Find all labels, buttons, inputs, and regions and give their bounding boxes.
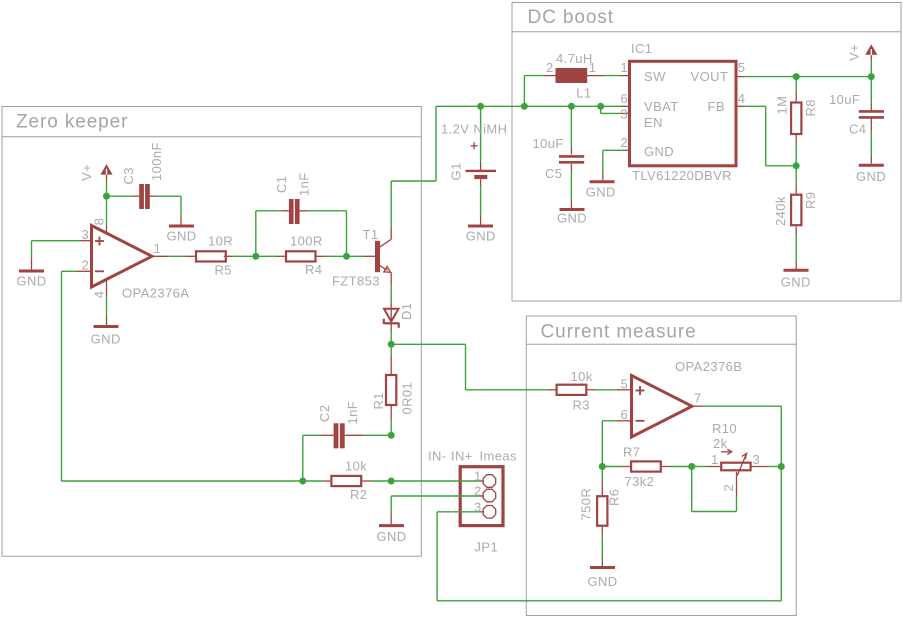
svg-text:5: 5 [738,60,746,75]
wire opamp pin2 feedback [62,271,303,481]
svg-text:R5: R5 [215,263,232,278]
svg-text:FZT853: FZT853 [332,274,380,289]
svg-text:750R: 750R [579,488,594,521]
diode D1 zener [384,303,415,331]
svg-text:2: 2 [546,60,554,75]
wire node to R7 [602,466,630,468]
wire to T1 base [347,255,376,257]
resistor R2 10k [331,459,367,503]
svg-text:6: 6 [621,407,629,422]
wire R10 pin3 to output net [752,466,782,468]
svg-text:GND: GND [91,332,121,347]
svg-text:1: 1 [474,468,482,483]
wire opamp pin1 output [152,255,195,257]
wire R2 to JP1 node [362,480,391,482]
svg-text:R4: R4 [305,262,322,277]
svg-text:L1: L1 [576,86,591,101]
svg-text:5: 5 [621,376,629,391]
connector JP1 pads [474,468,498,554]
frame Current measure [526,316,796,616]
wire VOUT net [736,76,871,78]
frame Zero keeper [2,107,421,557]
svg-text:R2: R2 [350,487,367,502]
junction R7/R10 node [688,463,695,470]
svg-text:GND: GND [16,274,46,289]
svg-text:2: 2 [474,483,482,498]
capacitor C3 [121,142,164,209]
svg-text:2: 2 [620,135,628,150]
capacitor C1 1nF [274,172,312,224]
svg-text:OPA2376A: OPA2376A [122,285,189,300]
wire R9 to GND [795,227,797,270]
op-amp U1B OPA2376B [621,359,743,437]
wire C3 to GND [150,196,181,224]
svg-text:7: 7 [694,391,702,406]
svg-text:Current measure: Current measure [541,322,697,343]
ground GND (JP1 pin2) [376,526,406,544]
wire R7 to pot node [662,466,692,468]
resistor R3 10k [547,369,593,413]
inductor L1 4.7uH [546,51,596,100]
svg-text:DC boost: DC boost [528,7,614,28]
wire R5 to node [224,255,256,257]
svg-text:1nF: 1nF [297,172,312,196]
resistor R1 0R01 [371,375,415,415]
svg-text:1.2V NiMH: 1.2V NiMH [441,122,507,137]
svg-text:2: 2 [721,484,736,492]
svg-text:GND: GND [466,229,496,244]
svg-text:FB: FB [708,99,725,114]
svg-text:V+: V+ [79,164,94,181]
junction VOUT/R8 [793,73,800,80]
wire R3 to opamp pin5 [588,389,632,391]
supply symbol V+ (DC boost) [846,44,877,77]
svg-text:R7: R7 [623,445,640,460]
wire opamp pin7 output [692,406,781,601]
junction node R4/T1 base [343,253,350,260]
svg-text:GND: GND [557,211,587,226]
wire JP1 pin3 Imeas [437,512,781,601]
svg-text:10uF: 10uF [533,136,564,151]
wire C1 branch right [300,211,347,256]
svg-text:4.7uH: 4.7uH [556,51,593,66]
junction VOUT/C4 [868,73,875,80]
svg-text:VOUT: VOUT [691,69,729,84]
wire JP1 pin2 to GND [391,496,484,524]
wire L1 to SW pin [587,75,629,77]
junction R8/R9/FB [793,162,800,169]
svg-text:1: 1 [620,60,628,75]
svg-text:73k2: 73k2 [625,474,655,489]
svg-text:1nF: 1nF [345,401,360,425]
transistor T1 FZT853 [332,227,391,289]
svg-text:2k: 2k [713,436,728,451]
svg-text:R6: R6 [607,489,622,506]
resistor R5 10R [196,234,233,278]
resistor R6 750R [579,488,622,526]
ground GND (R9) [781,270,811,289]
svg-text:GND: GND [644,144,674,159]
svg-text:GND: GND [856,169,886,184]
resistor R7 73k2 [623,445,661,489]
wire battery minus to GND [480,186,482,225]
svg-text:GND: GND [166,229,196,244]
frame DC boost [512,3,901,302]
svg-text:R8: R8 [803,99,818,116]
svg-text:OPA2376B: OPA2376B [675,359,742,374]
wire node to R4 [256,255,285,257]
capacitor C5 10uF [533,136,585,181]
junction R6/R7 node [599,463,606,470]
svg-text:GND: GND [586,185,616,200]
svg-text:C4: C4 [849,122,866,137]
junction V+ node [103,193,110,200]
potentiometer R10 2k [711,421,760,492]
svg-text:100nF: 100nF [149,142,164,181]
wire node to R9 [795,166,797,194]
wire VOUT to R8 [795,77,797,102]
wire node to JP1 pin1 [391,480,484,482]
IC U2 TLV61220DBVR [620,41,745,183]
junction VBAT/EN node [597,103,604,110]
wire C2 left to R2 node [303,435,334,481]
svg-text:VBAT: VBAT [644,99,679,114]
resistor R9 240k [773,192,818,226]
wire node to R1 [390,344,392,374]
ground GND (R6) [587,568,617,589]
wire C2 right [345,434,392,436]
capacitor C4 10uF [829,92,884,137]
wire net V+ to opamp pin8 [106,181,108,234]
wire C5 branch [570,106,572,154]
wire main battery net [436,105,630,107]
svg-text:3: 3 [474,499,482,514]
svg-text:4: 4 [92,291,107,299]
svg-text:JP1: JP1 [475,539,499,554]
svg-text:C5: C5 [545,166,562,181]
svg-text:100R: 100R [290,234,323,249]
wire R6 to GND [601,527,603,567]
wire D1 to Imeas node [390,331,392,344]
wire GND to opamp pin3 [32,241,92,270]
svg-text:C3: C3 [121,167,136,184]
wire node to current measure R3 [391,344,547,390]
svg-text:R9: R9 [803,192,818,209]
junction node R5/R4/C1 [252,253,259,260]
wire node to R6 [601,467,603,496]
svg-text:3: 3 [82,227,90,242]
svg-text:V+: V+ [846,44,861,61]
supply symbol V+ (zero keeper) [79,164,113,181]
wire opamp pin4 to GND [106,280,108,325]
svg-text:0R01: 0R01 [400,382,415,415]
wire R4 to base node [317,255,347,257]
junction L1 feed [521,103,528,110]
svg-text:10uF: 10uF [829,92,860,107]
wire C5 to GND [570,164,572,208]
wire T1 collector to top net [391,106,436,227]
svg-text:GND: GND [587,574,617,589]
wire FB net [736,106,796,166]
wire node to R2 [303,480,331,482]
svg-text:EN: EN [644,115,663,130]
svg-text:R3: R3 [573,398,590,413]
svg-text:IN+: IN+ [451,449,473,464]
resistor R4 100R [286,234,323,277]
svg-text:1M: 1M [775,96,790,115]
svg-text:3: 3 [753,452,761,467]
battery G1 1.2V NiMH [441,106,507,186]
ground GND (G1) [466,226,496,244]
svg-text:Zero keeper: Zero keeper [16,112,128,133]
svg-text:4: 4 [738,91,746,106]
svg-text:10R: 10R [208,234,233,249]
svg-text:G1: G1 [449,162,464,180]
wire R8 to R9 node [795,134,797,166]
svg-text:240k: 240k [773,196,788,226]
ground GND (opamp pin3) [16,271,46,289]
svg-text:1: 1 [711,452,719,467]
junction node R2/JP1 [388,478,395,485]
svg-text:GND: GND [781,274,811,289]
wire opamp pin6 [602,421,631,467]
ground GND (opamp pin4) [91,327,121,347]
junction C5 node [568,103,575,110]
junction output/R10 pin3 [778,463,785,470]
wire T1 emitter to D1 [390,286,392,304]
svg-text:6: 6 [620,91,628,106]
capacitor C2 1nF [317,401,360,448]
svg-text:2: 2 [82,257,90,272]
svg-text:Imeas: Imeas [480,449,518,464]
junction node R2 left [299,478,306,485]
wire C4 to GND [870,118,872,163]
svg-text:IN-: IN- [428,449,447,464]
wire C1 branch left [256,211,289,256]
svg-text:10k: 10k [345,459,367,474]
junction node R1/C2 [388,432,395,439]
svg-text:R1: R1 [371,392,386,409]
svg-text:IC1: IC1 [631,41,652,56]
ground GND (C5) [557,210,587,226]
svg-text:1: 1 [154,241,162,256]
svg-text:R10: R10 [712,421,737,436]
wire R1 to C2 node [390,406,392,436]
wire V+ node to C3 [107,195,140,197]
svg-text:3: 3 [620,107,628,122]
svg-text:8: 8 [92,218,107,226]
connector JP1 box [460,467,503,526]
svg-text:D1: D1 [399,303,414,320]
junction battery top [477,103,484,110]
wire EN branch [601,106,630,113]
svg-text:GND: GND [376,529,406,544]
ground GND (C4) [856,165,886,184]
svg-text:C1: C1 [274,176,289,193]
svg-text:TLV61220DBVR: TLV61220DBVR [632,168,732,183]
op-amp U1A OPA2376A [82,218,190,301]
svg-text:C2: C2 [317,405,332,422]
junction node D1/R1 [388,341,395,348]
svg-text:T1: T1 [363,227,379,242]
resistor R8 1M [775,96,819,134]
svg-text:10k: 10k [571,369,593,384]
svg-text:SW: SW [644,69,666,84]
wire VOUT to C4 [870,77,872,111]
wire R10 pin2 wiper [692,467,737,512]
ground GND (C3) [166,226,196,244]
wire IC GND pin2 [603,150,630,180]
ground GND (IC1) [586,182,616,200]
wire to L1 [524,76,555,107]
wire node to R10 pin1 [692,466,720,468]
